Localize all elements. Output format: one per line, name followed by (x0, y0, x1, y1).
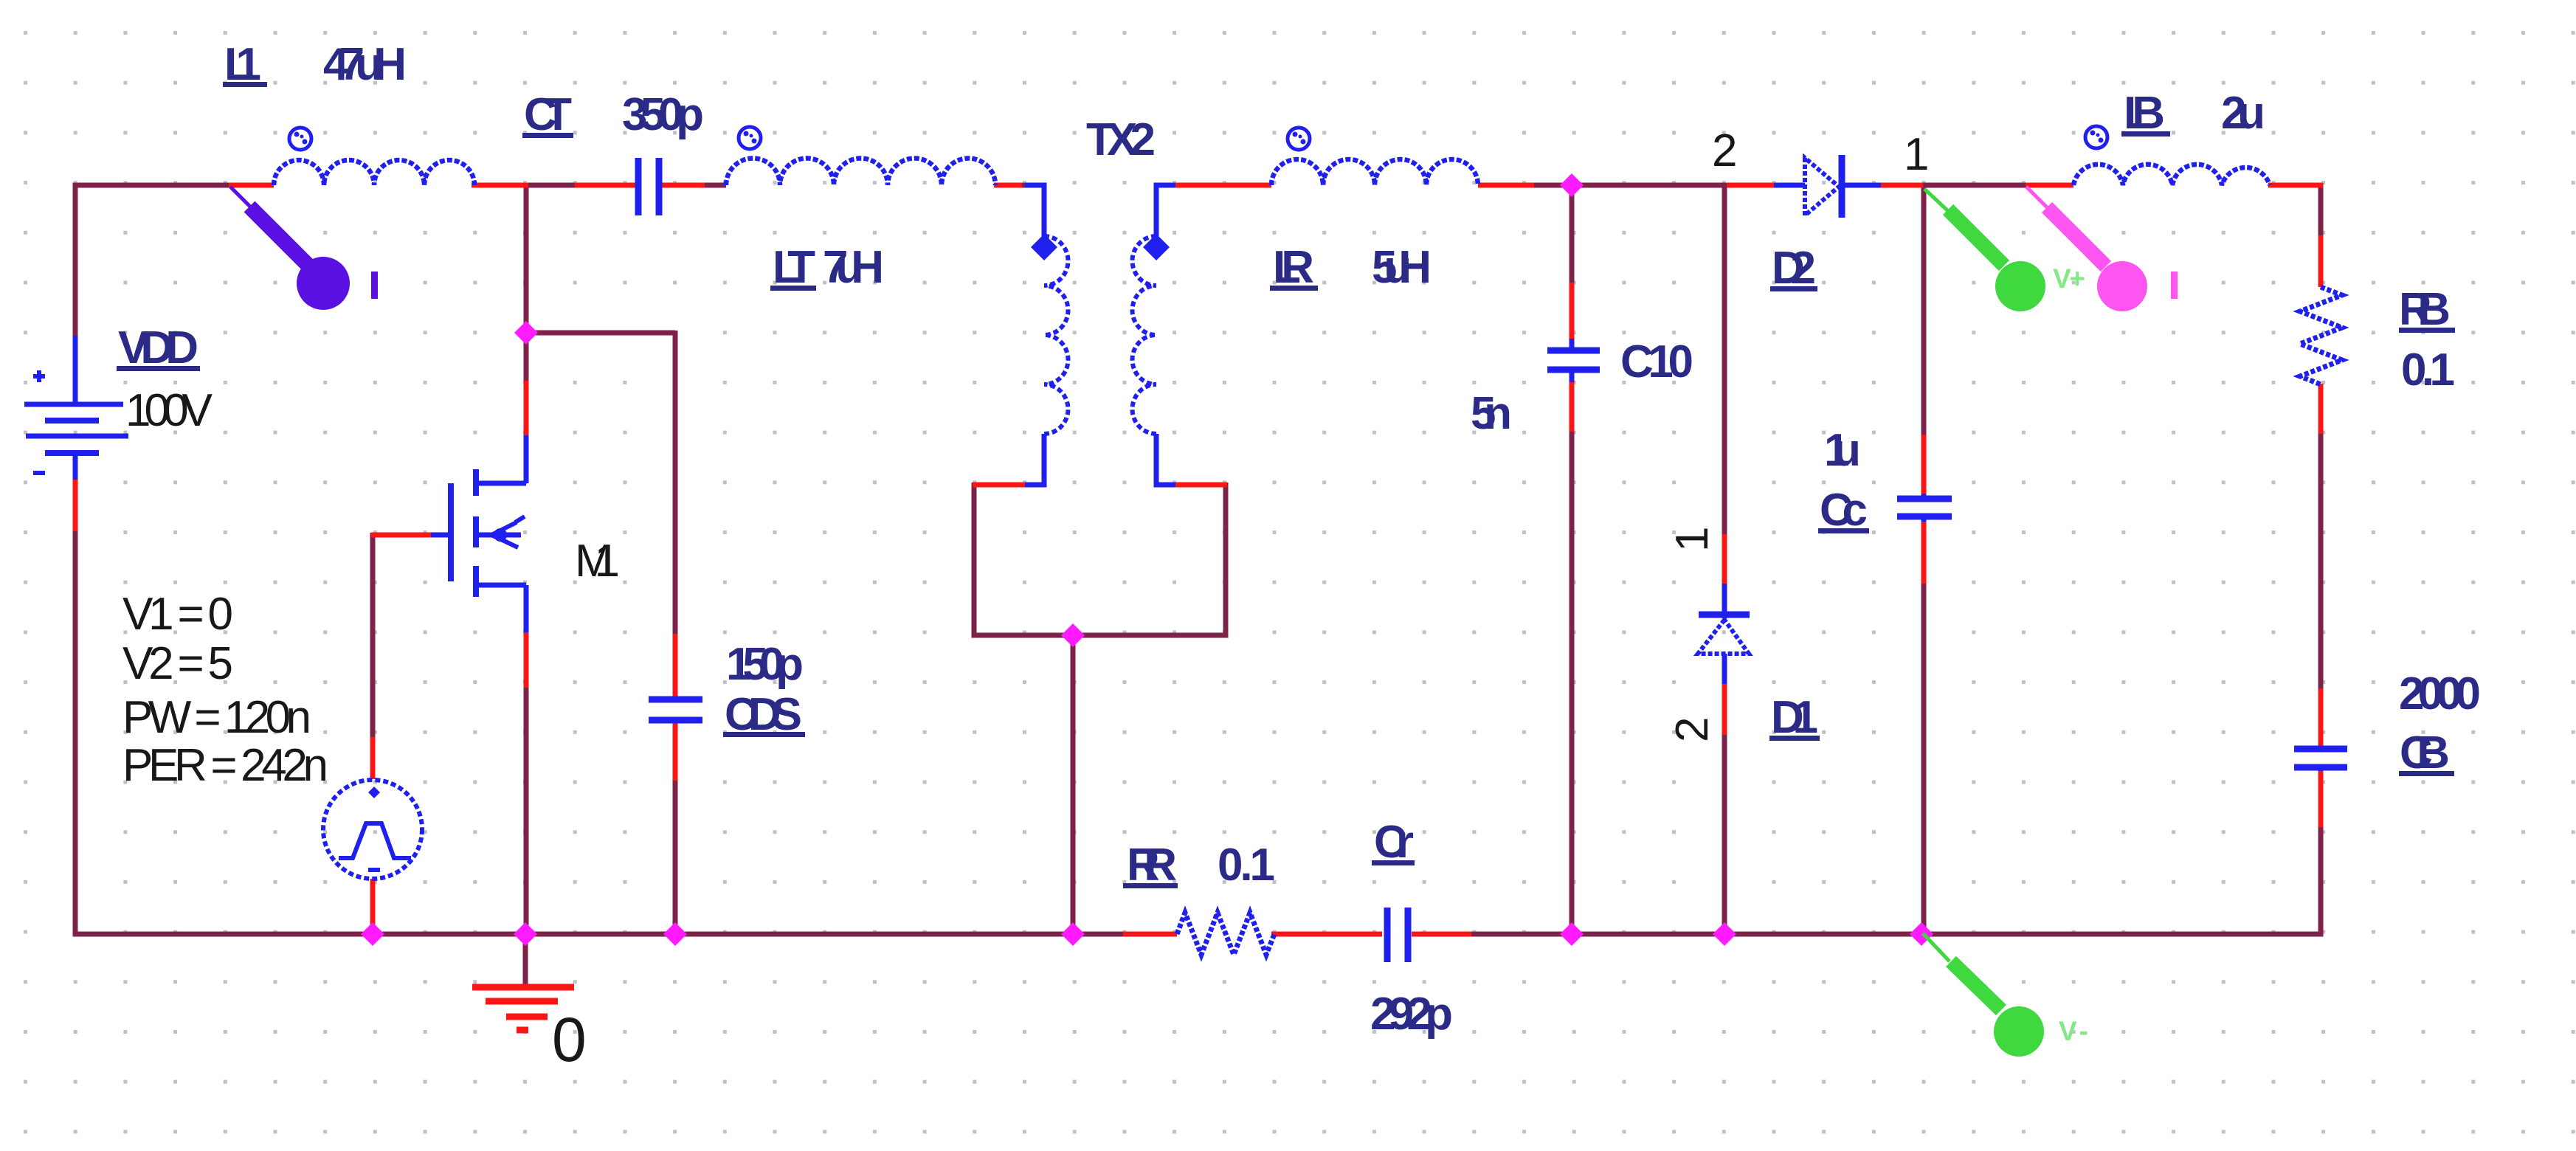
wire red CT pin1 (575, 183, 635, 188)
svg-text:0.1: 0.1 (1218, 840, 1275, 891)
transformer TX2 secondary lead top (1156, 185, 1175, 236)
wire red CT pin2 (662, 183, 705, 188)
wire TX2 center tap to ground rail (1071, 635, 1076, 934)
voltage probe V- (green) (1923, 933, 2044, 1057)
wire red LB pin2 (2268, 183, 2323, 188)
label RR (1123, 840, 1178, 891)
capacitor CDS plates (649, 697, 702, 723)
svg-text:CB: CB (2400, 727, 2450, 778)
wire RB to CB (2318, 432, 2324, 691)
svg-text:V-: V- (2059, 1016, 2088, 1046)
wire C10 branch lower (1570, 429, 1575, 934)
svg-text:Cr: Cr (1374, 817, 1414, 868)
wire red VDD minus lead (73, 479, 78, 531)
svg-text:CT: CT (524, 89, 572, 140)
svg-text:D2: D2 (1772, 243, 1816, 294)
label VDD (117, 322, 200, 373)
wire red CB top lead (2318, 688, 2324, 746)
label D1 (1769, 692, 1820, 743)
current probe I on LB (pink) (2026, 187, 2178, 311)
label LT (770, 242, 816, 293)
capacitor Cr plates (1387, 908, 1408, 962)
svg-text:100V: 100V (125, 385, 213, 436)
inductor LR phase dot (1288, 128, 1310, 150)
transformer TX2 primary lead top (1025, 185, 1044, 236)
wire red RR right to Cr left (1271, 932, 1382, 937)
wire red M1 drain lead (524, 381, 529, 436)
resistor RR (1177, 913, 1274, 955)
ground stem (523, 934, 528, 986)
wire D1 branch lower (1722, 733, 1727, 934)
voltage probe V+ (green) (1924, 189, 2045, 311)
inductor L1 phase dot (289, 128, 311, 150)
node junction Cc bottom (1910, 922, 1933, 946)
wire red LB pin1 (2026, 183, 2073, 188)
wire red TX2 pin2 to LR pin1 (1173, 183, 1271, 188)
wire M1 drain vertical (524, 183, 529, 383)
wire red D2 pin2 (1727, 183, 1774, 188)
svg-text:PER = 242n: PER = 242n (122, 740, 328, 791)
node junction CDS tee (514, 321, 538, 345)
inductor LT (726, 159, 995, 186)
current probe I on L1 (purple) (230, 187, 378, 310)
node junction ground tee (514, 922, 537, 946)
wire CDS branch vertical lower (673, 778, 678, 934)
node junction CDS bottom (663, 922, 687, 946)
wire red Cc bottom lead (1921, 522, 1927, 584)
svg-text:5n: 5n (1471, 388, 1512, 439)
wire C10 branch upper (1570, 183, 1575, 285)
wire top rail between CT and LT (703, 183, 726, 188)
label LR (1270, 242, 1318, 293)
svg-text:1: 1 (1667, 527, 1718, 552)
svg-text:V1 = 0: V1 = 0 (122, 589, 233, 640)
node junction TX2 center tap on loop (1061, 623, 1085, 647)
svg-text:2: 2 (1667, 717, 1718, 742)
ground bars (472, 987, 574, 1030)
capacitor C10 plates (1547, 339, 1600, 382)
wire red VPULSE top lead (370, 737, 376, 779)
wire RB branch upper (2318, 183, 2324, 238)
label D2 (1770, 243, 1817, 294)
wire red L1 pin2 (472, 183, 528, 188)
node junction VPULSE bottom (361, 922, 384, 946)
label Cr (1372, 817, 1415, 868)
wire top rail LR to D2 anode branch (1533, 183, 1727, 188)
svg-text:292p: 292p (1370, 989, 1453, 1040)
svg-text:C10: C10 (1620, 336, 1693, 387)
wire red C10 top lead (1570, 283, 1575, 339)
diode D1 (1698, 584, 1750, 684)
voltage source VPULSE (323, 780, 422, 879)
wire CB to ground rail corner (1469, 825, 2321, 934)
svg-text:V+: V+ (2053, 263, 2085, 294)
wire node1 to LB (1921, 183, 2028, 188)
wire top rail between LT and TX2 primary (1020, 183, 1027, 188)
wire D1 branch upper (1722, 183, 1727, 536)
mosfet M1 (431, 435, 526, 632)
svg-text:V2 = 5: V2 = 5 (122, 638, 233, 689)
transformer TX2 primary winding (1044, 236, 1068, 434)
svg-text:PW = 120n: PW = 120n (122, 692, 311, 743)
svg-text:M1: M1 (575, 536, 620, 587)
wire top-left: VDD+ to L1 (75, 185, 231, 336)
svg-text:LT: LT (773, 242, 815, 293)
capacitor Cc plates (1897, 494, 1952, 522)
svg-text:RB: RB (2399, 284, 2451, 335)
svg-text:5uH: 5uH (1372, 242, 1432, 293)
svg-text:RR: RR (1127, 840, 1177, 891)
wire TX2 secondary U loop (974, 483, 1226, 635)
wire gate branch vertical (370, 533, 376, 739)
svg-text:1u: 1u (1824, 425, 1861, 476)
svg-text:0: 0 (552, 1005, 587, 1074)
svg-text:2u: 2u (2221, 88, 2265, 139)
voltage source VDD battery (24, 336, 128, 480)
node junction D1 bottom (1713, 922, 1736, 946)
wire CDS branch vertical upper (673, 331, 678, 636)
inductor LR (1271, 159, 1478, 185)
svg-text:2000: 2000 (2399, 668, 2481, 719)
label Cc (1818, 485, 1869, 536)
wire red D2 pin1 (1880, 183, 1923, 188)
wire Cc branch upper (1921, 183, 1927, 437)
transformer TX2 secondary lead bottom (1156, 434, 1175, 485)
wire red TX2 secondary left stub (973, 483, 1026, 488)
label CB (2399, 727, 2454, 778)
wire top rail between L1 tee and CT (526, 183, 577, 188)
wire red RB bottom lead (2318, 384, 2324, 434)
node junction C10 bottom (1560, 922, 1584, 946)
svg-text:350p: 350p (622, 89, 704, 140)
svg-text:0.1: 0.1 (2401, 345, 2455, 395)
svg-text:7uH: 7uH (823, 242, 884, 293)
node junction TX2 tap at ground rail (1061, 922, 1085, 946)
svg-text:LB: LB (2124, 88, 2165, 139)
wire red LT pin2 (994, 183, 1022, 188)
capacitor CT plates (638, 158, 659, 215)
transformer TX2 secondary winding (1133, 236, 1156, 434)
svg-text:150p: 150p (726, 639, 804, 690)
svg-text:D1: D1 (1771, 692, 1818, 743)
wire red RB top lead (2318, 235, 2324, 287)
wire red LR pin2 (1478, 183, 1534, 188)
wire red D1 pin1 lead (1722, 534, 1727, 584)
label CT (522, 89, 573, 140)
transformer TX2 secondary phase diamond (1143, 234, 1170, 260)
wire red M1 source lead (524, 632, 529, 688)
transformer TX2 primary phase diamond (1031, 234, 1057, 260)
inductor LB (2073, 165, 2270, 185)
svg-text:2: 2 (1712, 125, 1737, 176)
svg-text:VDD: VDD (118, 322, 198, 373)
label CDS (723, 689, 805, 740)
wire left bus below VDD to ground rail (75, 529, 1125, 934)
label RB (2399, 284, 2455, 335)
inductor LB phase dot (2085, 126, 2107, 148)
wire red CB bottom lead (2318, 771, 2324, 827)
label L1 (223, 39, 267, 90)
inductor L1 (274, 160, 474, 185)
wire CDS branch horizontal (524, 331, 675, 336)
wire red Cc top lead (1921, 435, 1927, 494)
wire Cc branch lower (1921, 582, 1927, 934)
label LB (2121, 88, 2170, 139)
svg-text:Cc: Cc (1820, 485, 1868, 536)
capacitor CB plates (2294, 746, 2347, 771)
wire red VPULSE bottom lead (370, 879, 376, 932)
wire red CDS bottom lead (673, 723, 678, 781)
wire red RR left lead (1123, 932, 1177, 937)
svg-text:1: 1 (1904, 129, 1929, 180)
wire red Cr right lead (1412, 932, 1471, 937)
node junction C10 top (1560, 173, 1584, 197)
svg-text:47uH: 47uH (323, 39, 407, 90)
wire red CDS top lead (673, 634, 678, 697)
wire red TX2 secondary right stub (1174, 483, 1227, 488)
svg-text:LR: LR (1273, 242, 1314, 293)
diode D2 (1774, 155, 1881, 218)
wire M1 source to ground rail (524, 685, 529, 934)
resistor RB (2300, 287, 2342, 384)
wire red C10 bottom lead (1570, 381, 1575, 432)
wire red D1 pin2 lead (1722, 684, 1727, 735)
svg-text:TX2: TX2 (1086, 114, 1156, 165)
wire red L1 pin1 (229, 183, 274, 188)
wire red M1 gate lead (371, 533, 431, 538)
transformer TX2 primary lead bottom (1025, 434, 1044, 485)
inductor LT phase dot (739, 127, 761, 149)
